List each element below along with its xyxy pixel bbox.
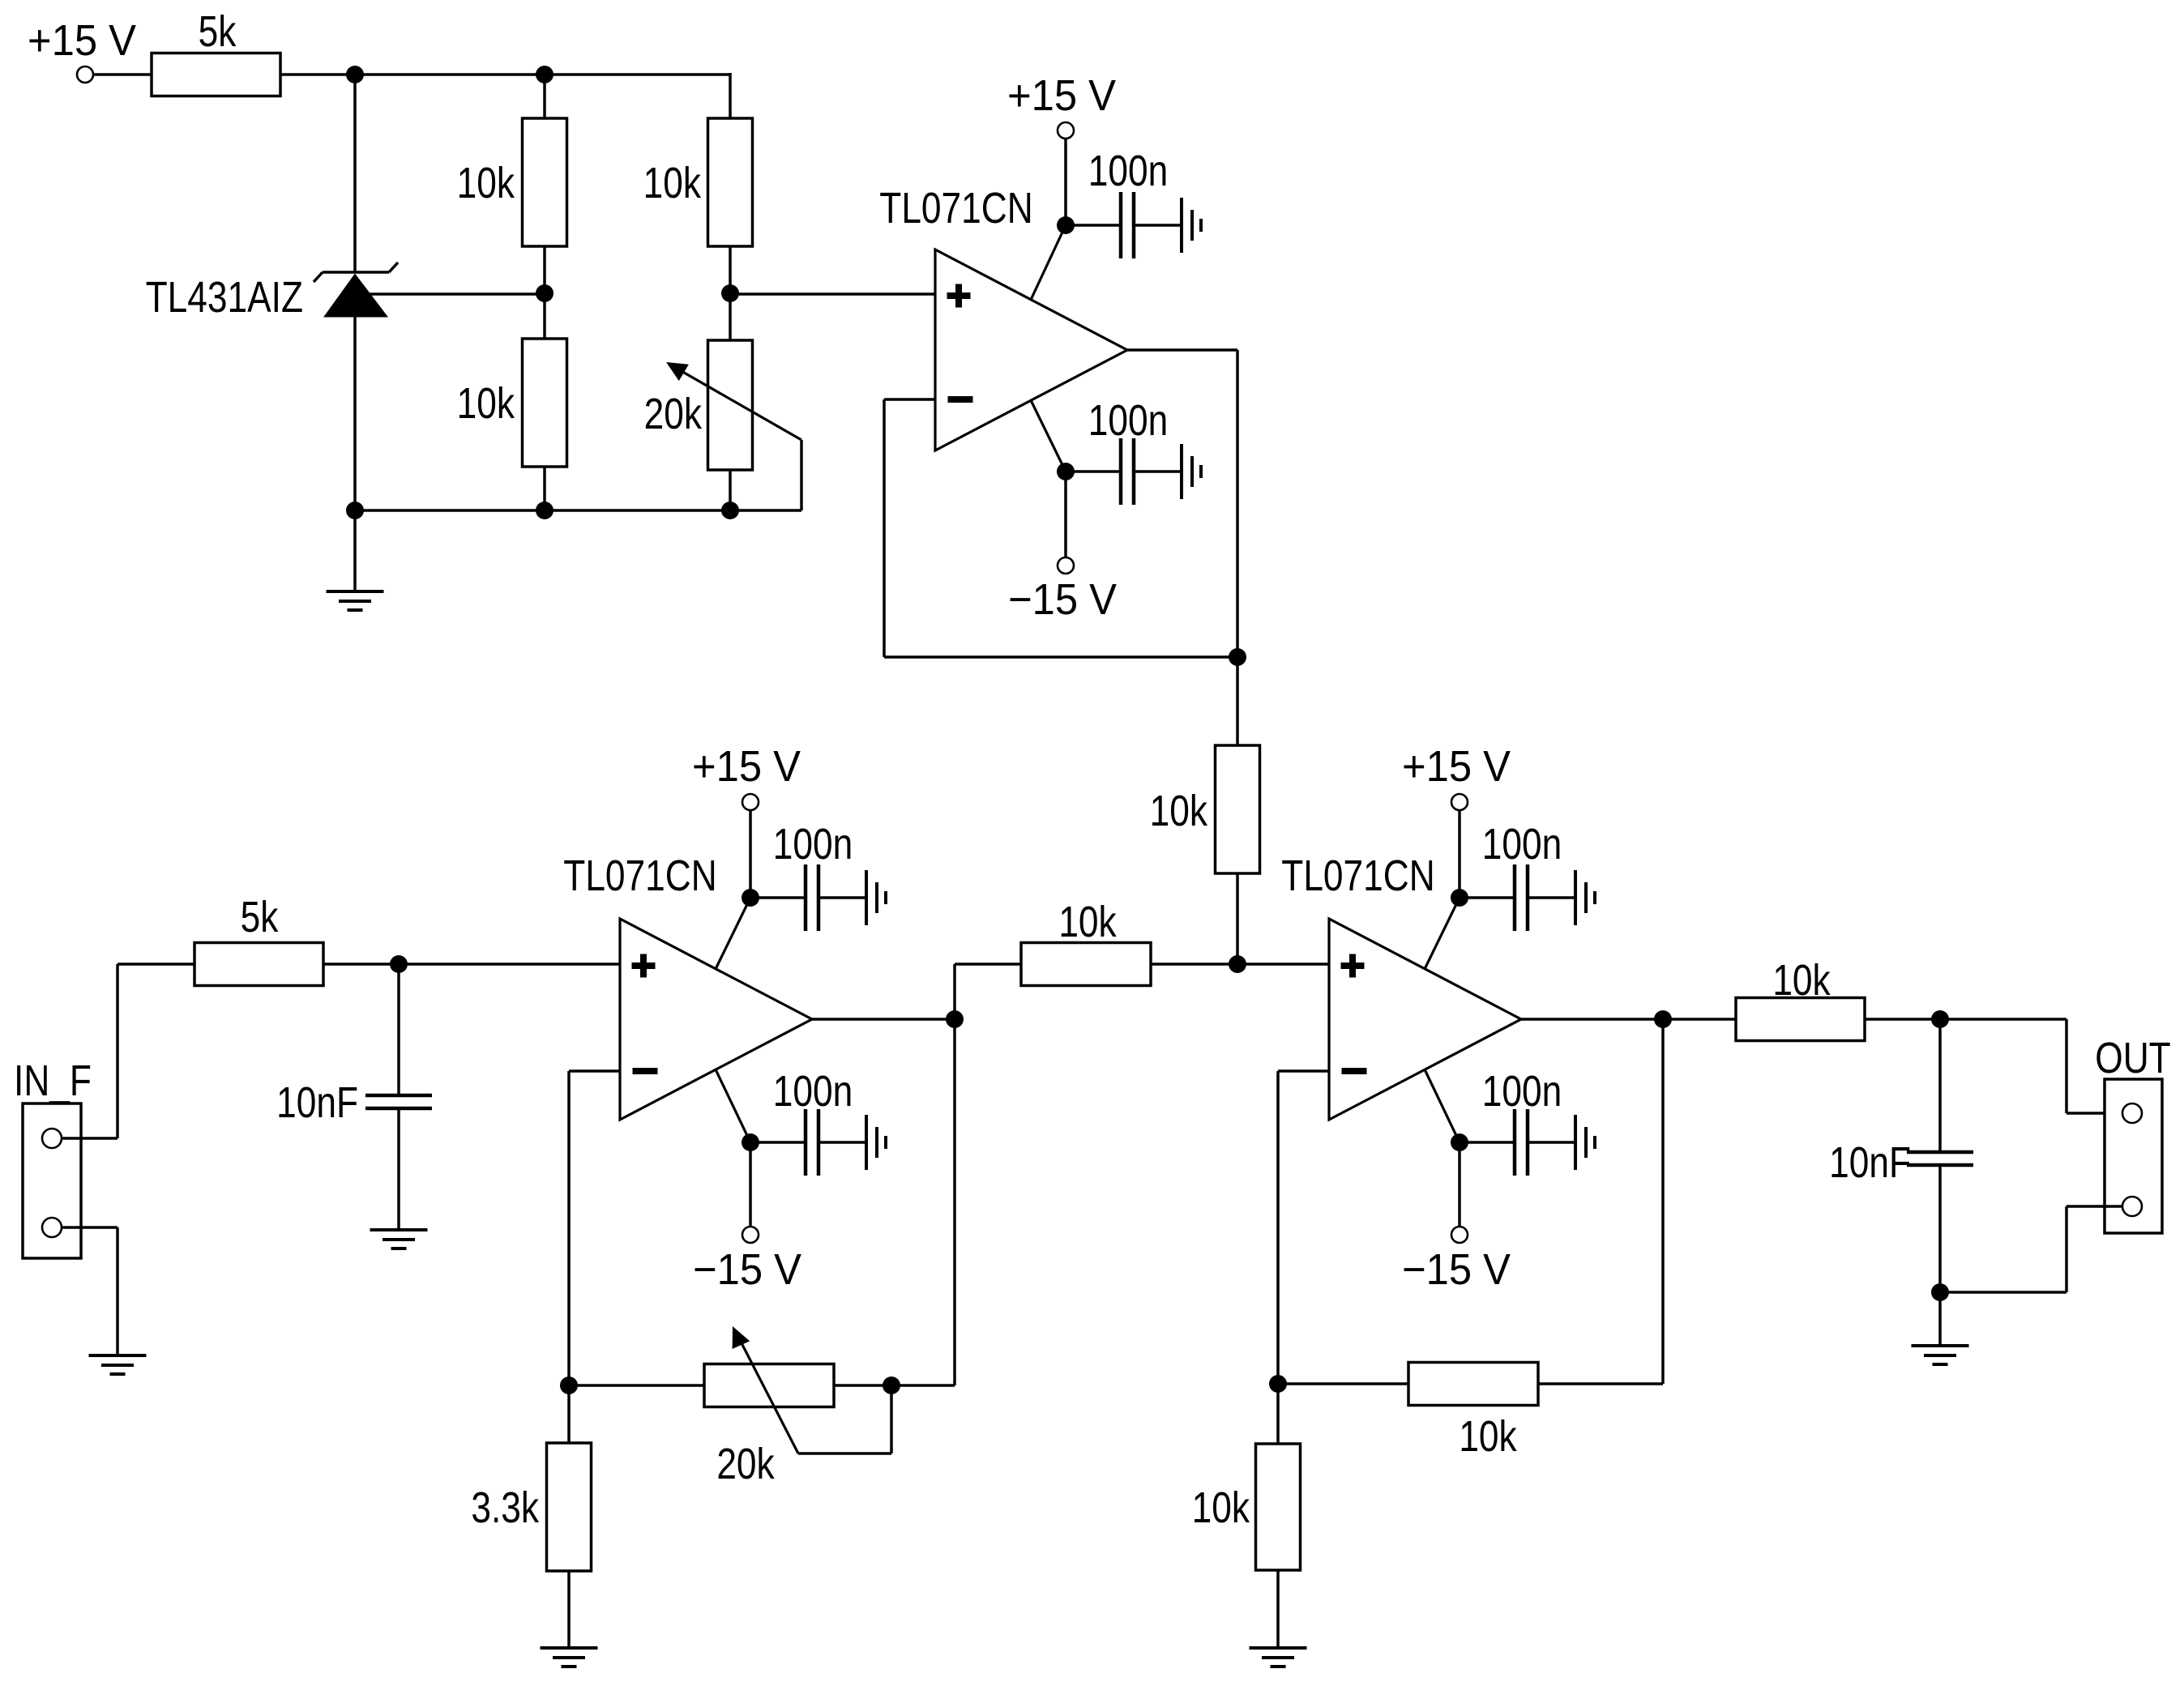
- wire U1 feedback riser: [883, 399, 886, 657]
- wire gain node to R10: [569, 1384, 704, 1387]
- wire J1 pin1 riser: [116, 964, 119, 1138]
- op-amp U2 V+ pin: [716, 898, 750, 969]
- capacitor C7 100n (U3 V- decoupling): [1460, 1067, 1575, 1176]
- ground (C6): [1575, 870, 1595, 925]
- power terminal -15V (U2): [693, 1227, 801, 1294]
- resistor R1 5k (horizontal): [152, 7, 280, 96]
- ground (C7): [1575, 1115, 1595, 1170]
- svg-text:+15 V: +15 V: [1402, 743, 1511, 792]
- wire U2 output: [812, 1018, 955, 1021]
- wire R10 wiper bottom: [798, 1452, 891, 1455]
- node junction C8 / J2 return: [1931, 1283, 1949, 1301]
- wire U2 - feedback to input: [569, 1069, 620, 1073]
- wire R12 to output riser: [1538, 1382, 1663, 1385]
- wire C3 to ground: [397, 1108, 400, 1229]
- wire R9 to ground: [567, 1571, 571, 1647]
- op-amp U3 - input mark: [1342, 1068, 1367, 1074]
- svg-text:+15 V: +15 V: [28, 17, 136, 66]
- node junction U1 feedback/output: [1229, 648, 1246, 666]
- shunt reference U4 TL431AIZ: [146, 263, 398, 322]
- wire to R8: [955, 963, 1021, 966]
- svg-text:20k: 20k: [716, 1440, 775, 1488]
- wire R8 to summing node: [1151, 963, 1237, 966]
- resistor R8 10k (horizontal): [1021, 898, 1151, 986]
- svg-text:100n: 100n: [1482, 1067, 1562, 1116]
- resistor R3 10k (vertical): [457, 339, 567, 467]
- wire node A to C3: [397, 964, 400, 1095]
- wire gain node to R9: [567, 1385, 571, 1443]
- wire top rail: [280, 73, 730, 76]
- wire R5 bottom lead: [729, 470, 732, 510]
- wire to R6: [1236, 657, 1239, 745]
- wire feedback node to R12: [1278, 1382, 1408, 1385]
- svg-text:TL071CN: TL071CN: [879, 184, 1032, 233]
- svg-text:10k: 10k: [1150, 787, 1208, 835]
- op-amp U1 + input mark: [947, 284, 971, 308]
- ground (C1): [1182, 198, 1201, 253]
- wire R5 top lead: [729, 294, 732, 340]
- resistor R9 3.3k (vertical): [471, 1443, 591, 1571]
- wire U1 output down: [1236, 350, 1239, 657]
- wire divider to op-amp U1 + input: [730, 292, 935, 296]
- wire TL431 anode down: [353, 316, 357, 510]
- wire U2 output riser up: [953, 964, 956, 1019]
- wire R7 to node A: [323, 963, 399, 966]
- svg-text:10k: 10k: [1192, 1483, 1250, 1532]
- wire U3 - feedback to input: [1278, 1069, 1329, 1073]
- svg-text:TL431AIZ: TL431AIZ: [146, 273, 303, 322]
- wire to pot junction: [891, 1384, 955, 1387]
- wire return to J2 pin2: [1940, 1291, 2066, 1294]
- resistor R2 10k (vertical): [457, 118, 567, 246]
- wire J2 pin1 drop: [2065, 1019, 2068, 1113]
- op-amp U1 - input mark: [948, 396, 973, 403]
- wire U3 V+ to terminal: [1458, 810, 1461, 898]
- svg-text:20k: 20k: [644, 390, 703, 438]
- potentiometer R10 wiper arrow: [733, 1326, 798, 1453]
- wire R3 bottom lead: [543, 467, 546, 510]
- wire R10 wiper riser: [890, 1385, 893, 1453]
- wire J2 pin2 riser: [2065, 1206, 2068, 1292]
- wire to J2 pin2: [2066, 1205, 2123, 1208]
- power terminal -15V (U1): [1008, 557, 1117, 624]
- op-amp U1 V- pin: [1031, 400, 1066, 472]
- power terminal +15V (top-left): [28, 17, 136, 83]
- wire output feedback riser: [1661, 1019, 1665, 1384]
- wire R3 top lead: [543, 294, 546, 339]
- ground (C4): [866, 870, 886, 925]
- svg-text:+15 V: +15 V: [1007, 72, 1116, 121]
- node junction U1 V-: [1057, 463, 1075, 480]
- node junction U2 output: [946, 1010, 964, 1028]
- wire pot wiper down: [800, 440, 803, 510]
- op-amp U1 V+ pin: [1031, 225, 1066, 300]
- capacitor C5 100n (U2 V- decoupling): [750, 1067, 866, 1176]
- wire node A to U2 + input: [399, 963, 620, 966]
- wire U1 V- to terminal: [1064, 472, 1067, 557]
- svg-text:TL071CN: TL071CN: [563, 852, 716, 900]
- node OUT junction: [1931, 1010, 1949, 1028]
- wire to ground (output): [1938, 1292, 1942, 1345]
- wire U1 feedback bottom: [884, 655, 1237, 659]
- svg-text:−15 V: −15 V: [693, 1246, 801, 1295]
- wire node OUT to J2 pin1: [1940, 1018, 2066, 1021]
- svg-text:10k: 10k: [457, 159, 515, 207]
- resistor R13 10k (horizontal output): [1736, 956, 1865, 1041]
- connector J1 IN_F: [14, 1056, 92, 1258]
- wire R6 to summing node: [1236, 873, 1239, 964]
- wire R2 bottom lead: [543, 246, 546, 294]
- svg-text:+15 V: +15 V: [692, 743, 801, 792]
- capacitor C1 100n (U1 V+ decoupling): [1066, 147, 1182, 258]
- op-amp U2 TL071CN: [563, 852, 812, 1120]
- node junction summing node: [1229, 955, 1246, 973]
- capacitor C6 100n (U3 V+ decoupling): [1460, 820, 1575, 931]
- connector J2 OUT: [2095, 1034, 2170, 1233]
- node junction divider mid-left: [536, 284, 553, 302]
- svg-text:100n: 100n: [1088, 396, 1168, 445]
- wire terminal to R-5k: [93, 73, 152, 76]
- wire R4 bottom lead: [729, 246, 732, 294]
- node junction U2 gain node: [560, 1377, 578, 1394]
- wire U3 output to R13: [1663, 1018, 1736, 1021]
- wire to J2 pin1: [2066, 1112, 2123, 1115]
- wire J1 pin1 lead: [62, 1137, 118, 1140]
- power terminal +15V (U2): [692, 743, 801, 810]
- potentiometer R5 20k (vertical): [644, 340, 753, 470]
- potentiometer R10 20k (horizontal): [704, 1364, 834, 1489]
- ground (J1 pin2): [89, 1355, 147, 1374]
- wire R13 to node OUT: [1865, 1018, 1940, 1021]
- svg-text:100n: 100n: [773, 1067, 853, 1116]
- svg-text:−15 V: −15 V: [1402, 1246, 1511, 1295]
- svg-text:10k: 10k: [457, 379, 515, 428]
- wire U2 V+ to terminal: [749, 810, 752, 898]
- ground (output): [1912, 1346, 1969, 1364]
- wire U2 - feedback riser: [567, 1071, 571, 1385]
- power terminal +15V (U3): [1402, 743, 1511, 810]
- resistor R12 10k (horizontal feedback): [1408, 1363, 1538, 1462]
- wire U1 V+ to terminal: [1064, 139, 1067, 225]
- node junction bottom rail / ground: [346, 502, 364, 519]
- wire U2 output down to gain network: [953, 1019, 956, 1385]
- op-amp U3 + input mark: [1341, 954, 1365, 978]
- svg-text:3.3k: 3.3k: [471, 1483, 539, 1532]
- node junction top rail / R2 top: [536, 66, 553, 83]
- capacitor C3 10nF (input filter): [276, 1078, 432, 1127]
- ground (reference divider): [327, 591, 384, 610]
- svg-text:OUT: OUT: [2095, 1034, 2170, 1082]
- svg-text:10k: 10k: [1772, 956, 1831, 1005]
- node junction U3 output: [1654, 1010, 1672, 1028]
- wire TL431 cathode: [353, 75, 357, 272]
- svg-text:100n: 100n: [1088, 147, 1168, 195]
- node junction U2 V+: [742, 889, 759, 907]
- svg-text:−15 V: −15 V: [1008, 576, 1117, 625]
- node junction U3 V-: [1451, 1133, 1468, 1151]
- svg-text:10k: 10k: [1459, 1412, 1517, 1461]
- wire U1 feedback to - input: [884, 398, 935, 401]
- op-amp U3 V- pin: [1425, 1069, 1460, 1142]
- wire feedback node to R11: [1276, 1384, 1280, 1444]
- node junction divider mid-right: [721, 284, 739, 302]
- svg-text:10k: 10k: [1058, 898, 1117, 946]
- resistor R11 10k (vertical): [1192, 1444, 1301, 1570]
- node junction U3 V+: [1451, 889, 1468, 907]
- wire R11 to ground: [1276, 1570, 1280, 1647]
- op-amp U2 + input mark: [632, 954, 656, 978]
- wire J1 pin2 down: [116, 1227, 119, 1355]
- wire TL431 ref to divider: [366, 292, 545, 296]
- wire R2 top lead: [543, 75, 546, 118]
- wire U3 - feedback riser: [1276, 1071, 1280, 1384]
- ground (C3): [370, 1230, 428, 1248]
- node junction U2 V-: [742, 1133, 759, 1151]
- capacitor C4 100n (U2 V+ decoupling): [750, 820, 866, 931]
- potentiometer R5 wiper arrow: [666, 362, 801, 440]
- node junction pot R10 right: [883, 1377, 900, 1394]
- resistor R6 10k (vertical mid): [1150, 745, 1260, 873]
- svg-text:10nF: 10nF: [1829, 1138, 1911, 1187]
- node junction bottom rail / R5: [721, 502, 739, 519]
- svg-text:10k: 10k: [643, 159, 702, 207]
- resistor R4 10k (vertical): [643, 118, 753, 246]
- node junction U1 V+: [1057, 216, 1075, 234]
- wire U3 V- to terminal: [1458, 1142, 1461, 1226]
- svg-text:100n: 100n: [773, 820, 853, 869]
- wire summing node to U3 + input: [1237, 963, 1329, 966]
- ground (R11): [1250, 1648, 1307, 1667]
- ground (C5): [866, 1115, 886, 1170]
- op-amp U1 TL071CN: [879, 184, 1127, 450]
- svg-text:10nF: 10nF: [276, 1078, 358, 1127]
- capacitor C2 100n (U1 V- decoupling): [1066, 396, 1182, 505]
- wire node OUT to C8: [1938, 1019, 1942, 1152]
- svg-text:100n: 100n: [1482, 820, 1562, 869]
- svg-text:IN_F: IN_F: [14, 1056, 92, 1105]
- node junction bottom rail / R3: [536, 502, 553, 519]
- node A junction (RC filter): [390, 955, 408, 973]
- op-amp U2 - input mark: [633, 1068, 658, 1074]
- capacitor C8 10nF (output filter): [1829, 1138, 1973, 1187]
- node junction U3 feedback node: [1269, 1375, 1287, 1393]
- wire U2 V- to terminal: [749, 1142, 752, 1226]
- node junction top rail / TL431 cathode: [346, 66, 364, 83]
- op-amp U3 V+ pin: [1425, 898, 1460, 969]
- wire U3 output: [1521, 1018, 1663, 1021]
- wire J1 pin2 lead: [62, 1226, 118, 1229]
- svg-text:TL071CN: TL071CN: [1281, 852, 1434, 900]
- wire top rail corner to R4: [729, 73, 732, 118]
- wire bottom rail: [355, 509, 801, 512]
- svg-text:5k: 5k: [241, 893, 279, 941]
- wire U1 output: [1127, 348, 1237, 352]
- op-amp U3 TL071CN: [1281, 852, 1521, 1120]
- power terminal +15V (U1): [1007, 72, 1116, 139]
- wire to ground (reference): [353, 510, 357, 591]
- wire to R7: [118, 963, 194, 966]
- wire C8 bottom: [1938, 1165, 1942, 1292]
- svg-text:5k: 5k: [199, 7, 237, 56]
- power terminal -15V (U3): [1402, 1227, 1511, 1294]
- ground (R9): [541, 1648, 598, 1667]
- ground (C2): [1182, 444, 1201, 499]
- wire R10 right lead: [834, 1384, 891, 1387]
- resistor R7 5k (horizontal): [194, 893, 323, 986]
- op-amp U2 V- pin: [716, 1069, 750, 1142]
